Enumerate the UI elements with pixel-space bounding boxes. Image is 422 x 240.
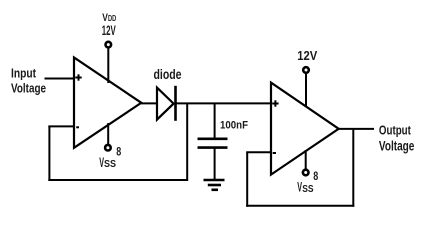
op-amp U2 bbox=[271, 83, 339, 175]
svg-text:SS: SS bbox=[302, 183, 313, 195]
net label VSS of U1 bbox=[99, 154, 116, 170]
pin number 8 of U1 bbox=[116, 145, 121, 159]
power 12V terminal of U2 bbox=[303, 67, 309, 107]
wire node A down to capacitor bbox=[214, 103, 216, 138]
op-amp U1 bbox=[74, 58, 141, 148]
capacitor C1 bbox=[198, 139, 228, 148]
wire U2 feedback: bottom run bbox=[246, 205, 354, 207]
net label VDD bbox=[102, 12, 117, 38]
wire U1 feedback: node A down bbox=[186, 103, 188, 181]
wire U2 feedback to inverting input bbox=[246, 151, 271, 153]
wire capacitor to ground bbox=[214, 148, 216, 180]
net label 12V of U2 bbox=[297, 48, 317, 63]
wire U1 feedback to inverting input bbox=[48, 125, 74, 127]
svg-text:12V: 12V bbox=[102, 22, 116, 38]
wire U2 feedback: output down bbox=[352, 129, 354, 207]
wire input to U1 non-inverting input bbox=[45, 78, 75, 80]
value label diode bbox=[154, 67, 182, 83]
svg-text:Voltage: Voltage bbox=[11, 81, 46, 96]
svg-text:Output: Output bbox=[379, 122, 411, 137]
wire U1 output to diode anode bbox=[140, 102, 158, 104]
svg-text:8: 8 bbox=[313, 171, 318, 183]
node label Output Voltage bbox=[379, 122, 415, 153]
wire U1 feedback: left riser bbox=[48, 126, 50, 181]
value label 100nF bbox=[220, 119, 248, 131]
wire U2 feedback: left riser bbox=[246, 152, 248, 207]
power VSS terminal of U2 (pin 8) bbox=[303, 150, 309, 175]
svg-text:12V: 12V bbox=[297, 48, 317, 63]
node label Input Voltage bbox=[11, 65, 46, 95]
ground bbox=[204, 180, 225, 190]
svg-text:diode: diode bbox=[154, 67, 182, 83]
svg-text:SS: SS bbox=[104, 158, 116, 170]
wire diode cathode to U2 non-inverting input (node A) bbox=[176, 102, 272, 104]
pin number 8 of U2 bbox=[313, 171, 318, 183]
svg-text:100nF: 100nF bbox=[220, 119, 248, 131]
svg-text:8: 8 bbox=[116, 145, 121, 159]
diode D1 bbox=[157, 86, 176, 121]
power VSS terminal of U1 (pin 8) bbox=[105, 123, 111, 151]
power VDD terminal of U1 bbox=[106, 42, 112, 83]
svg-text:Voltage: Voltage bbox=[379, 138, 415, 153]
svg-text:Input: Input bbox=[11, 65, 37, 80]
net label VSS of U2 bbox=[297, 179, 313, 195]
wire U1 feedback: bottom run bbox=[48, 179, 188, 181]
wire U2 output bbox=[337, 128, 374, 130]
